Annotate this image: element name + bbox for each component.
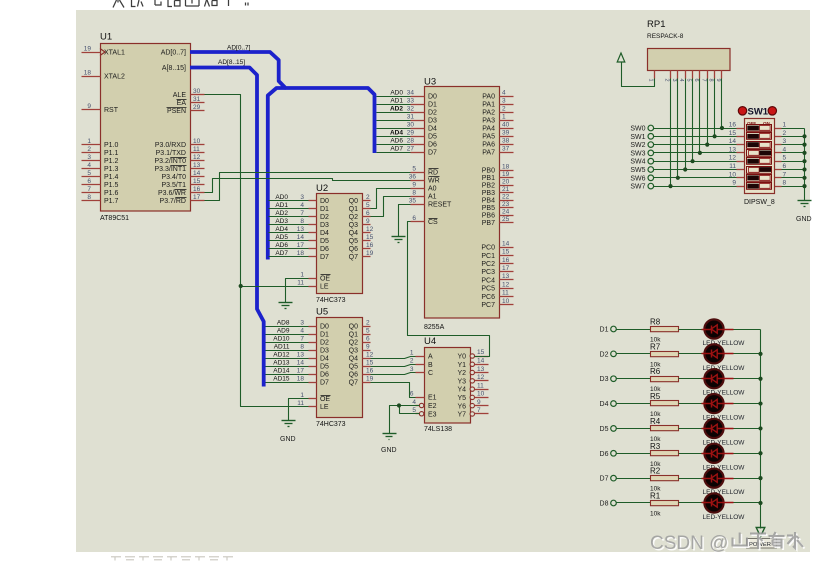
svg-text:5: 5: [686, 79, 692, 82]
svg-text:P1.3: P1.3: [104, 166, 119, 173]
svg-text:RP1: RP1: [647, 19, 665, 30]
svg-text:17: 17: [193, 194, 201, 201]
svg-text:ALE: ALE: [173, 92, 187, 99]
svg-text:36: 36: [409, 173, 417, 180]
svg-text:CS: CS: [428, 219, 438, 226]
svg-text:14: 14: [502, 240, 510, 247]
svg-text:16: 16: [193, 186, 201, 193]
svg-text:Y7: Y7: [457, 412, 466, 419]
svg-text:19: 19: [84, 45, 92, 52]
svg-text:D5: D5: [320, 364, 329, 371]
svg-text:9: 9: [87, 103, 91, 110]
svg-text:10: 10: [729, 171, 737, 178]
svg-text:32: 32: [407, 105, 415, 112]
svg-text:PA5: PA5: [482, 134, 495, 141]
svg-text:40: 40: [502, 121, 510, 128]
svg-text:AD[0..7]: AD[0..7]: [227, 45, 251, 52]
svg-text:D3: D3: [320, 222, 329, 229]
svg-text:D5: D5: [428, 134, 437, 141]
svg-text:E3: E3: [428, 411, 437, 418]
svg-text:27: 27: [407, 145, 415, 152]
svg-text:SW7: SW7: [630, 184, 645, 191]
svg-text:Q3: Q3: [349, 348, 358, 355]
svg-text:PA2: PA2: [482, 110, 495, 117]
svg-text:P1.2: P1.2: [104, 158, 119, 165]
svg-text:D2: D2: [320, 340, 329, 347]
svg-text:Q0: Q0: [349, 198, 358, 205]
svg-text:Q4: Q4: [349, 230, 358, 237]
svg-text:15: 15: [193, 178, 201, 185]
svg-text:5: 5: [366, 202, 370, 209]
svg-text:13: 13: [193, 162, 201, 169]
svg-text:22: 22: [502, 193, 510, 200]
svg-text:74HC373: 74HC373: [316, 421, 346, 428]
svg-text:2: 2: [664, 79, 670, 82]
svg-text:PA6: PA6: [482, 142, 495, 149]
svg-text:D7: D7: [320, 254, 329, 261]
svg-text:13: 13: [729, 146, 737, 153]
svg-text:E2: E2: [428, 403, 437, 410]
svg-text:16: 16: [366, 242, 374, 249]
svg-text:D4: D4: [320, 356, 329, 363]
svg-text:P1.0: P1.0: [104, 142, 119, 149]
svg-text:9: 9: [366, 218, 370, 225]
svg-text:6: 6: [366, 210, 370, 217]
svg-text:8: 8: [87, 194, 91, 201]
svg-text:Q2: Q2: [349, 214, 358, 221]
svg-text:AD8: AD8: [277, 320, 290, 327]
svg-text:1: 1: [648, 79, 654, 82]
svg-text:17: 17: [502, 265, 510, 272]
svg-text:3: 3: [783, 138, 787, 145]
svg-text:P3.2/INT0: P3.2/INT0: [154, 158, 186, 165]
svg-text:28: 28: [407, 137, 415, 144]
svg-text:PC6: PC6: [481, 294, 495, 301]
svg-text:LE: LE: [320, 404, 329, 411]
svg-text:B: B: [428, 362, 433, 369]
svg-text:D7: D7: [320, 380, 329, 387]
svg-text:Q6: Q6: [349, 246, 358, 253]
svg-text:AD11: AD11: [274, 344, 290, 351]
svg-text:15: 15: [729, 130, 737, 137]
svg-text:7: 7: [300, 335, 304, 342]
svg-text:D3: D3: [600, 376, 609, 383]
svg-text:AD3: AD3: [275, 218, 288, 225]
svg-text:P1.7: P1.7: [104, 198, 119, 205]
svg-text:PB4: PB4: [482, 198, 495, 205]
svg-text:15: 15: [366, 234, 374, 241]
svg-text:AD4: AD4: [275, 226, 288, 233]
svg-text:Q0: Q0: [349, 324, 358, 331]
svg-text:P1.1: P1.1: [104, 150, 119, 157]
svg-text:39: 39: [502, 129, 510, 136]
svg-text:1: 1: [300, 271, 304, 278]
svg-text:A: A: [428, 354, 433, 361]
svg-text:D6: D6: [600, 451, 609, 458]
svg-text:P1.5: P1.5: [104, 182, 119, 189]
svg-text:PA1: PA1: [482, 102, 495, 109]
svg-text:Q7: Q7: [349, 254, 358, 261]
svg-text:10: 10: [502, 298, 510, 305]
svg-text:5: 5: [87, 170, 91, 177]
svg-text:AD9: AD9: [277, 328, 290, 335]
svg-text:R4: R4: [650, 417, 661, 426]
svg-text:AD1: AD1: [390, 98, 403, 105]
svg-text:D0: D0: [320, 198, 329, 205]
svg-text:AD10: AD10: [273, 336, 290, 343]
svg-text:2: 2: [783, 130, 787, 137]
svg-text:33: 33: [407, 97, 415, 104]
svg-text:12: 12: [729, 155, 737, 162]
svg-text:P1.4: P1.4: [104, 174, 119, 181]
svg-text:R2: R2: [650, 467, 661, 476]
svg-text:PB1: PB1: [482, 175, 495, 182]
svg-text:RD: RD: [428, 170, 438, 177]
svg-text:11: 11: [477, 382, 484, 389]
svg-text:AD1: AD1: [275, 202, 288, 209]
svg-text:Q7: Q7: [349, 380, 358, 387]
svg-text:31: 31: [407, 113, 415, 120]
svg-text:D6: D6: [428, 142, 437, 149]
svg-text:10: 10: [477, 391, 485, 398]
svg-text:Q3: Q3: [349, 222, 358, 229]
svg-text:15: 15: [366, 359, 374, 366]
svg-text:13: 13: [477, 366, 485, 373]
svg-text:D3: D3: [428, 118, 437, 125]
svg-text:Q1: Q1: [349, 332, 358, 339]
svg-text:8255A: 8255A: [424, 324, 445, 331]
svg-text:11: 11: [297, 400, 304, 407]
svg-text:4: 4: [678, 79, 684, 82]
svg-text:12: 12: [366, 351, 374, 358]
svg-text:37: 37: [502, 145, 510, 152]
svg-text:LED-YELLOW: LED-YELLOW: [703, 514, 746, 521]
svg-text:7: 7: [87, 186, 91, 193]
svg-text:PA3: PA3: [482, 118, 495, 125]
svg-text:SW1: SW1: [748, 107, 769, 118]
svg-text:3: 3: [671, 79, 677, 82]
svg-text:P3.3/INT1: P3.3/INT1: [154, 166, 186, 173]
svg-text:OE: OE: [320, 276, 330, 283]
svg-text:14: 14: [729, 138, 737, 145]
svg-text:12: 12: [477, 374, 485, 381]
svg-text:14: 14: [477, 357, 485, 364]
svg-text:Y1: Y1: [457, 362, 466, 369]
svg-text:AD13: AD13: [273, 360, 290, 367]
svg-text:LE: LE: [320, 284, 329, 291]
svg-text:E1: E1: [428, 395, 437, 402]
svg-text:4: 4: [300, 202, 304, 209]
svg-text:D5: D5: [600, 426, 609, 433]
svg-text:P3.1/TXD: P3.1/TXD: [156, 150, 186, 157]
svg-text:PSEN: PSEN: [167, 108, 186, 115]
svg-text:D0: D0: [428, 94, 437, 101]
svg-text:6: 6: [87, 178, 91, 185]
svg-text:D4: D4: [320, 230, 329, 237]
svg-text:AD6: AD6: [275, 242, 288, 249]
svg-text:SW4: SW4: [630, 159, 645, 166]
svg-text:D8: D8: [600, 500, 609, 507]
svg-text:4: 4: [783, 146, 787, 153]
svg-text:13: 13: [502, 273, 510, 280]
svg-text:4: 4: [87, 162, 91, 169]
svg-text:1: 1: [87, 138, 91, 145]
svg-text:RESET: RESET: [428, 202, 452, 209]
svg-text:AD0: AD0: [275, 194, 288, 201]
svg-text:9: 9: [477, 399, 481, 406]
svg-text:Y2: Y2: [457, 370, 466, 377]
svg-text:6: 6: [366, 335, 370, 342]
svg-text:23: 23: [502, 201, 510, 208]
svg-text:RESPACK-8: RESPACK-8: [647, 33, 684, 40]
svg-text:15: 15: [477, 349, 485, 356]
svg-text:XTAL1: XTAL1: [104, 50, 125, 57]
svg-text:18: 18: [502, 163, 510, 170]
svg-text:1: 1: [300, 392, 304, 399]
svg-text:R7: R7: [650, 342, 661, 351]
svg-text:Q4: Q4: [349, 356, 358, 363]
svg-text:PC3: PC3: [481, 269, 495, 276]
svg-text:17: 17: [297, 367, 305, 374]
svg-text:35: 35: [409, 197, 417, 204]
svg-text:11: 11: [297, 279, 304, 286]
svg-text:PC7: PC7: [481, 302, 495, 309]
svg-text:AT89C51: AT89C51: [100, 215, 129, 222]
svg-text:1: 1: [410, 349, 414, 356]
svg-text:P3.0/RXD: P3.0/RXD: [155, 142, 186, 149]
svg-text:AD[0..7]: AD[0..7]: [161, 50, 186, 57]
svg-text:7: 7: [783, 171, 787, 178]
svg-text:19: 19: [502, 171, 510, 178]
svg-text:30: 30: [193, 88, 201, 95]
svg-text:D1: D1: [320, 206, 329, 213]
svg-text:GND: GND: [280, 436, 296, 443]
svg-text:6: 6: [412, 215, 416, 222]
svg-text:U3: U3: [424, 77, 436, 88]
svg-text:D7: D7: [600, 476, 609, 483]
svg-text:PC4: PC4: [481, 277, 495, 284]
svg-text:8: 8: [300, 218, 304, 225]
svg-text:GND: GND: [381, 447, 397, 454]
svg-text:16: 16: [366, 367, 374, 374]
svg-text:1: 1: [502, 113, 506, 120]
svg-text:5: 5: [412, 165, 416, 172]
svg-text:8: 8: [300, 343, 304, 350]
svg-text:Y3: Y3: [457, 378, 466, 385]
svg-text:Y6: Y6: [457, 403, 466, 410]
svg-text:SW0: SW0: [630, 126, 645, 133]
svg-text:D2: D2: [320, 214, 329, 221]
svg-text:9: 9: [732, 180, 736, 187]
svg-text:4: 4: [300, 327, 304, 334]
svg-text:9: 9: [366, 343, 370, 350]
svg-text:6: 6: [410, 390, 414, 397]
svg-text:D2: D2: [600, 351, 609, 358]
svg-text:AD15: AD15: [273, 376, 290, 383]
svg-text:2: 2: [410, 358, 414, 365]
svg-text:Q2: Q2: [349, 340, 358, 347]
svg-text:AD14: AD14: [273, 368, 290, 375]
svg-text:38: 38: [502, 137, 510, 144]
svg-text:15: 15: [502, 249, 510, 256]
svg-text:D5: D5: [320, 238, 329, 245]
svg-text:10k: 10k: [650, 510, 661, 517]
svg-text:16: 16: [502, 257, 510, 264]
svg-text:6: 6: [783, 163, 787, 170]
svg-text:PC1: PC1: [481, 253, 495, 260]
svg-text:8: 8: [412, 189, 416, 196]
svg-text:12: 12: [366, 226, 374, 233]
svg-text:AD[8..15]: AD[8..15]: [218, 59, 245, 66]
svg-text:EA: EA: [177, 100, 187, 107]
svg-text:P1.6: P1.6: [104, 190, 119, 197]
svg-text:U4: U4: [424, 336, 436, 347]
svg-text:XTAL2: XTAL2: [104, 74, 125, 81]
svg-text:20: 20: [502, 178, 510, 185]
svg-text:19: 19: [366, 250, 374, 257]
svg-text:R5: R5: [650, 392, 661, 401]
svg-text:18: 18: [84, 69, 92, 76]
svg-text:CSDN @: CSDN @: [650, 533, 728, 554]
svg-text:A0: A0: [428, 186, 437, 193]
svg-text:SW5: SW5: [630, 167, 645, 174]
svg-text:A[8..15]: A[8..15]: [162, 65, 186, 72]
svg-text:7: 7: [700, 79, 706, 82]
svg-text:OE: OE: [320, 396, 330, 403]
svg-text:AD2: AD2: [275, 210, 288, 217]
svg-text:9: 9: [412, 181, 416, 188]
svg-text:PA7: PA7: [482, 150, 495, 157]
svg-text:PC5: PC5: [481, 286, 495, 293]
svg-text:AD7: AD7: [390, 146, 403, 153]
svg-text:PB2: PB2: [482, 183, 495, 190]
svg-text:Y5: Y5: [457, 395, 466, 402]
svg-text:PB6: PB6: [482, 213, 495, 220]
svg-text:17: 17: [297, 242, 305, 249]
svg-text:14: 14: [297, 234, 305, 241]
svg-text:Q5: Q5: [349, 364, 358, 371]
svg-text:11: 11: [729, 163, 736, 170]
svg-text:8: 8: [708, 79, 714, 82]
svg-text:SW2: SW2: [630, 142, 645, 149]
svg-text:AD12: AD12: [273, 352, 290, 359]
svg-text:10: 10: [193, 138, 201, 145]
svg-text:D1: D1: [600, 327, 609, 334]
svg-text:7: 7: [300, 210, 304, 217]
svg-text:11: 11: [193, 146, 200, 153]
svg-text:8: 8: [783, 180, 787, 187]
svg-text:Q6: Q6: [349, 372, 358, 379]
svg-text:5: 5: [783, 155, 787, 162]
svg-text:Y4: Y4: [457, 387, 466, 394]
svg-text:34: 34: [407, 89, 415, 96]
svg-text:19: 19: [366, 375, 374, 382]
svg-text:P3.5/T1: P3.5/T1: [161, 182, 186, 189]
svg-text:SW6: SW6: [630, 175, 645, 182]
svg-text:74LS138: 74LS138: [424, 426, 452, 433]
svg-text:24: 24: [502, 208, 510, 215]
svg-text:GND: GND: [796, 216, 812, 223]
svg-text:2: 2: [87, 146, 91, 153]
svg-text:3: 3: [300, 319, 304, 326]
svg-text:AD6: AD6: [390, 138, 403, 145]
svg-text:29: 29: [407, 129, 415, 136]
svg-text:D0: D0: [320, 324, 329, 331]
svg-text:3: 3: [502, 97, 506, 104]
svg-text:P3.6/WR: P3.6/WR: [158, 190, 186, 197]
svg-text:21: 21: [502, 186, 510, 193]
svg-text:SW3: SW3: [630, 150, 645, 157]
svg-text:R3: R3: [650, 442, 661, 451]
svg-text:3: 3: [87, 154, 91, 161]
svg-text:PB3: PB3: [482, 190, 495, 197]
svg-text:DIPSW_8: DIPSW_8: [744, 199, 775, 206]
svg-text:14: 14: [193, 170, 201, 177]
svg-text:R1: R1: [650, 491, 661, 500]
svg-text:D6: D6: [320, 246, 329, 253]
svg-text:13: 13: [297, 226, 305, 233]
svg-text:D1: D1: [320, 332, 329, 339]
svg-text:C: C: [428, 370, 433, 377]
svg-text:25: 25: [502, 216, 510, 223]
svg-text:PB7: PB7: [482, 220, 495, 227]
svg-text:AD2: AD2: [390, 106, 403, 113]
svg-text:74HC373: 74HC373: [316, 297, 346, 304]
svg-text:12: 12: [193, 154, 201, 161]
svg-text:30: 30: [407, 121, 415, 128]
svg-text:D4: D4: [428, 126, 437, 133]
svg-text:D3: D3: [320, 348, 329, 355]
svg-text:31: 31: [193, 96, 201, 103]
svg-text:AD4: AD4: [390, 130, 403, 137]
svg-text:Q1: Q1: [349, 206, 358, 213]
svg-text:AD0: AD0: [390, 90, 403, 97]
svg-text:P3.4/T0: P3.4/T0: [161, 174, 186, 181]
svg-text:2: 2: [366, 194, 370, 201]
svg-text:U1: U1: [100, 32, 112, 43]
svg-text:D1: D1: [428, 102, 437, 109]
svg-text:A1: A1: [428, 194, 437, 201]
svg-text:2: 2: [366, 319, 370, 326]
svg-text:Y0: Y0: [457, 354, 466, 361]
svg-text:R8: R8: [650, 318, 661, 327]
svg-text:7: 7: [477, 407, 481, 414]
svg-text:6: 6: [693, 79, 699, 82]
svg-text:PB0: PB0: [482, 168, 495, 175]
svg-text:D2: D2: [428, 110, 437, 117]
svg-text:29: 29: [193, 104, 201, 111]
svg-text:SW1: SW1: [630, 134, 645, 141]
svg-text:PB5: PB5: [482, 205, 495, 212]
svg-text:18: 18: [297, 375, 305, 382]
svg-text:D7: D7: [428, 150, 437, 157]
svg-text:AD7: AD7: [275, 250, 288, 257]
svg-text:PA0: PA0: [482, 94, 495, 101]
svg-text:PC2: PC2: [481, 261, 495, 268]
svg-text:D6: D6: [320, 372, 329, 379]
svg-text:R6: R6: [650, 367, 661, 376]
svg-text:Q5: Q5: [349, 238, 358, 245]
svg-text:U2: U2: [316, 183, 328, 194]
svg-text:16: 16: [729, 122, 737, 129]
svg-text:AD5: AD5: [275, 234, 288, 241]
svg-text:2: 2: [502, 105, 506, 112]
svg-text:11: 11: [502, 290, 509, 297]
svg-text:18: 18: [297, 250, 305, 257]
svg-text:9: 9: [715, 79, 721, 82]
svg-text:RST: RST: [104, 107, 119, 114]
svg-text:12: 12: [502, 281, 510, 288]
